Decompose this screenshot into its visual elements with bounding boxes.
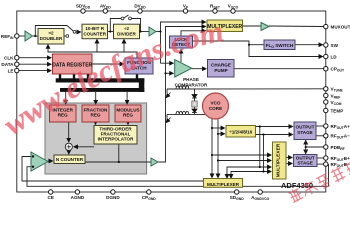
svg-text:CLK: CLK — [4, 56, 14, 61]
svg-text:VTUNE: VTUNE — [331, 87, 344, 93]
svg-text:REG: REG — [123, 113, 133, 118]
svg-text:OUTPUT: OUTPUT — [296, 125, 315, 130]
svg-text:SW: SW — [331, 43, 339, 48]
svg-text:RFOUTA−: RFOUTA− — [331, 134, 350, 140]
svg-text:AGNDVCO: AGNDVCO — [251, 195, 270, 201]
svg-text:LE: LE — [8, 68, 14, 73]
svg-text:DGND: DGND — [106, 195, 120, 200]
svg-text:TEMP: TEMP — [331, 108, 344, 113]
svg-text:DATA: DATA — [1, 62, 14, 67]
svg-text:MUXOUT: MUXOUT — [331, 24, 350, 29]
svg-text:VP: VP — [183, 4, 189, 10]
svg-text:MULTIPLEXER: MULTIPLEXER — [207, 182, 240, 187]
svg-text:STAGE: STAGE — [297, 161, 312, 166]
svg-text:DOUBLER: DOUBLER — [40, 36, 63, 41]
svg-text:AGND: AGND — [71, 195, 85, 200]
svg-text:CORE: CORE — [209, 106, 222, 111]
svg-text:AVDD: AVDD — [100, 4, 111, 10]
svg-text:STAGE: STAGE — [297, 130, 312, 135]
svg-text:INTERPOLATOR: INTERPOLATOR — [98, 137, 134, 142]
svg-text:VREF: VREF — [331, 93, 341, 99]
svg-text:REFIN: REFIN — [1, 34, 14, 40]
svg-text:10-BIT R: 10-BIT R — [85, 26, 104, 31]
svg-text:PDBRF: PDBRF — [331, 145, 345, 151]
svg-text:PHASE: PHASE — [183, 77, 199, 82]
svg-text:COMPARATOR: COMPARATOR — [175, 83, 208, 88]
svg-text:COUNTER: COUNTER — [83, 31, 106, 36]
svg-text:RFOUTA+: RFOUTA+ — [331, 124, 350, 130]
svg-text:RFOUTB+: RFOUTB+ — [331, 156, 350, 162]
svg-text:VCO: VCO — [211, 101, 221, 106]
svg-text:÷1/2/4/8/16: ÷1/2/4/8/16 — [229, 129, 252, 134]
svg-text:VCOM: VCOM — [331, 100, 342, 106]
svg-text:REG: REG — [91, 113, 101, 118]
svg-text:÷2: ÷2 — [124, 26, 130, 31]
svg-text:N COUNTER: N COUNTER — [56, 157, 84, 162]
svg-text:CHARGE: CHARGE — [211, 63, 231, 68]
svg-text:CPOUT: CPOUT — [331, 67, 345, 73]
svg-text:RSET: RSET — [210, 4, 221, 10]
svg-text:MULTIPLEXER: MULTIPLEXER — [275, 143, 281, 177]
svg-text:CE: CE — [48, 195, 54, 200]
svg-text:PUMP: PUMP — [214, 68, 227, 73]
svg-text:×2: ×2 — [48, 31, 54, 36]
svg-text:DVDD: DVDD — [134, 4, 146, 10]
svg-text:SDGND: SDGND — [230, 195, 244, 201]
svg-text:DIVIDER: DIVIDER — [117, 31, 136, 36]
svg-text:LD: LD — [331, 54, 338, 59]
svg-text:CPGND: CPGND — [142, 195, 156, 201]
svg-text:VVCO: VVCO — [228, 4, 239, 10]
